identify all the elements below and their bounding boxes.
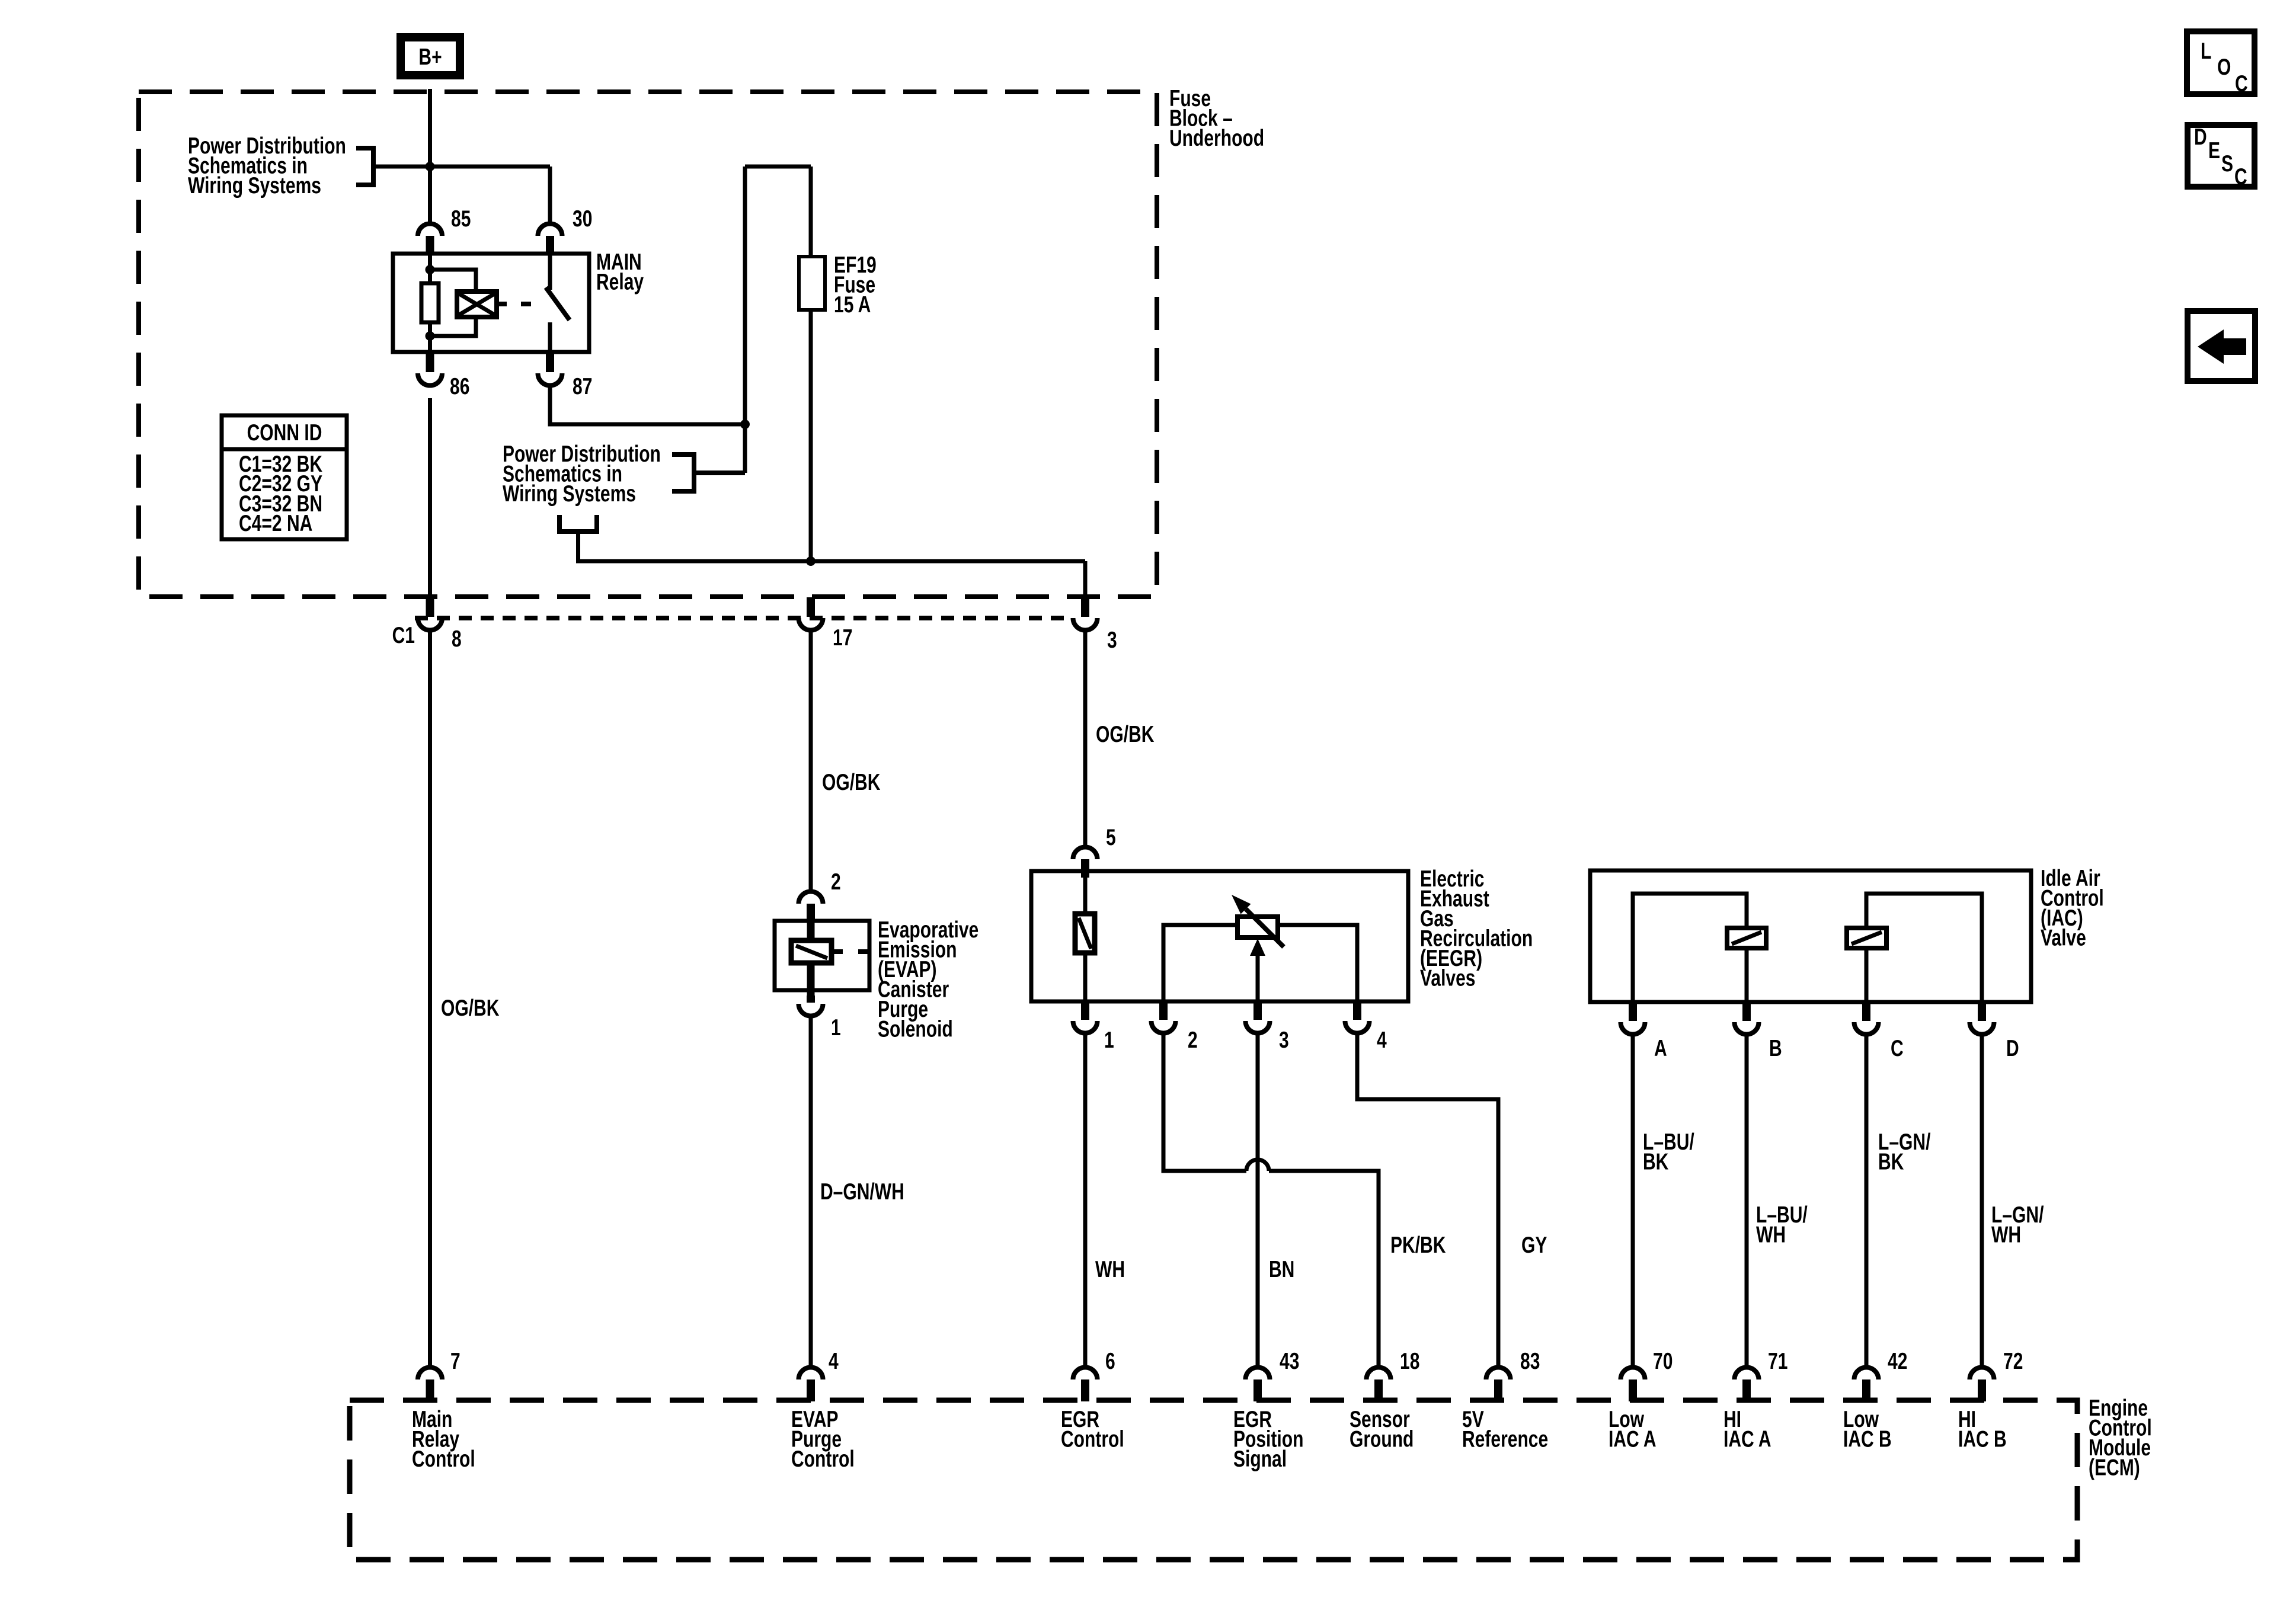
wire pot left to EEGR pin 2	[1163, 925, 1237, 1001]
CONN ID table	[222, 415, 347, 539]
label Sensor Ground	[1350, 1406, 1414, 1452]
wire D-GN/WH EVAP to ECM pin 4	[809, 1017, 813, 1366]
svg-text:WH: WH	[1095, 1256, 1125, 1282]
svg-text:WH: WH	[1991, 1222, 2021, 1248]
back arrow box	[2188, 311, 2255, 381]
svg-text:IAC A: IAC A	[1609, 1426, 1657, 1452]
svg-text:Wiring Systems: Wiring Systems	[188, 172, 321, 199]
svg-text:OG/BK: OG/BK	[441, 995, 499, 1021]
svg-text:Underhood: Underhood	[1169, 125, 1264, 151]
svg-text:70: 70	[1653, 1348, 1673, 1374]
IAC coil C/D	[1847, 928, 1886, 948]
wire label L-GN/WH	[1991, 1202, 2044, 1247]
wire riser top to fuse	[745, 165, 811, 169]
wire OG/BK pin 8 to ECM pin 7	[428, 632, 432, 1366]
svg-text:WH: WH	[1756, 1222, 1786, 1248]
label Low IAC A	[1609, 1406, 1657, 1452]
svg-text:Valves: Valves	[1420, 965, 1476, 991]
label Idle Air Control (IAC) Valve	[2041, 865, 2104, 950]
svg-text:IAC B: IAC B	[1958, 1426, 2007, 1452]
wire bracket to riser	[694, 470, 745, 475]
svg-text:(ECM): (ECM)	[2089, 1455, 2140, 1481]
label Low IAC B	[1843, 1406, 1892, 1452]
svg-text:C: C	[2235, 71, 2248, 97]
wire bracket to node and pin 30	[373, 165, 550, 169]
svg-text:D–GN/WH: D–GN/WH	[820, 1179, 904, 1205]
svg-text:D: D	[2194, 124, 2207, 150]
svg-text:BK: BK	[1878, 1149, 1904, 1175]
label MAIN Relay	[596, 249, 644, 295]
svg-text:7: 7	[450, 1348, 461, 1374]
Fuse Block - Underhood dashed box	[139, 92, 1157, 597]
svg-text:3: 3	[1279, 1027, 1289, 1053]
svg-text:O: O	[2217, 54, 2231, 80]
B+ battery terminal box	[401, 37, 460, 75]
svg-text:42: 42	[1888, 1348, 1907, 1374]
svg-text:E: E	[2208, 137, 2220, 164]
wire L-GN/WH IAC D to ECM pin 72	[1980, 1036, 1984, 1366]
ECM pin 83 connector	[1486, 1368, 1511, 1402]
EEGR pin 1 connector	[1073, 1001, 1097, 1033]
junction riser / pin 87 wire	[740, 420, 750, 429]
wire label L-BU/WH	[1756, 1202, 1808, 1247]
wire OG/BK pin 3 to EEGR pin 5	[1083, 632, 1088, 846]
svg-text:IAC A: IAC A	[1723, 1426, 1771, 1452]
svg-text:PK/BK: PK/BK	[1390, 1232, 1446, 1258]
wire coil bottom branch	[430, 317, 477, 336]
label HI IAC A	[1723, 1406, 1771, 1452]
potentiometer wiper arrow	[1250, 939, 1265, 1001]
svg-text:Control: Control	[791, 1446, 855, 1472]
C1 connector dashed line	[415, 616, 1071, 620]
label EGR Control	[1061, 1406, 1124, 1452]
wire IAC coil C stub	[1865, 928, 1869, 948]
wire 86 down to pin 8	[428, 398, 432, 598]
relay pin 30 connector	[538, 223, 562, 254]
svg-text:6: 6	[1105, 1348, 1115, 1374]
svg-text:BN: BN	[1269, 1256, 1294, 1282]
wire bracket to pin 3	[578, 532, 1086, 561]
relay pin 86 connector	[418, 354, 442, 386]
svg-text:L: L	[2201, 38, 2211, 64]
ECM pin 72 connector	[1970, 1368, 1994, 1402]
IAC pin D connector	[1970, 1003, 1994, 1035]
wire fuse vertical	[809, 167, 813, 561]
relay switch	[546, 254, 570, 352]
wire IAC coil C to pin C	[1865, 948, 1869, 1002]
connector C1 pin 3	[1073, 597, 1097, 630]
relay pin 87 connector	[538, 354, 562, 386]
wire GY EEGR pin 4 to ECM pin 83	[1357, 1035, 1498, 1366]
svg-text:18: 18	[1400, 1348, 1419, 1374]
svg-text:IAC B: IAC B	[1843, 1426, 1892, 1452]
DESC reference box	[2188, 124, 2255, 190]
EEGR position sensor potentiometer	[1232, 895, 1284, 947]
IAC pin B connector	[1735, 1003, 1759, 1035]
ECM pin 6 connector	[1073, 1368, 1097, 1402]
bracket for upper power distribution note	[356, 148, 373, 185]
wire PK/BK EEGR pin 2 to ECM pin 18	[1163, 1035, 1379, 1366]
wire EEGR pin 5 to solenoid	[1083, 878, 1088, 914]
bracket under mid power distribution note	[559, 515, 597, 532]
EEGR pin 5 connector	[1073, 847, 1097, 878]
svg-text:8: 8	[452, 626, 462, 652]
svg-text:71: 71	[1768, 1348, 1787, 1374]
junction fuse wire / pin 3 wire	[806, 556, 816, 566]
EVAP solenoid pin 1 connector	[799, 996, 823, 1016]
svg-text:Control: Control	[412, 1446, 475, 1472]
wire L-BU/WH IAC B to ECM pin 71	[1745, 1036, 1749, 1366]
svg-text:85: 85	[451, 206, 471, 232]
svg-text:S: S	[2221, 151, 2233, 177]
svg-text:2: 2	[1188, 1027, 1198, 1053]
EEGR pin 2 connector	[1152, 1001, 1176, 1033]
wire pin 87 to riser	[550, 385, 745, 424]
svg-text:4: 4	[829, 1348, 839, 1374]
wire label L-BU/BK	[1643, 1129, 1694, 1174]
EEGR pin 4 connector	[1345, 1001, 1370, 1033]
svg-text:Wiring Systems: Wiring Systems	[503, 481, 636, 507]
label 5V Reference	[1462, 1406, 1548, 1452]
ECM pin 7 connector	[418, 1368, 442, 1402]
svg-text:Reference: Reference	[1462, 1426, 1548, 1452]
svg-text:30: 30	[573, 206, 592, 232]
wire riser	[743, 167, 747, 473]
svg-text:3: 3	[1107, 627, 1117, 653]
svg-text:Control: Control	[1061, 1426, 1124, 1452]
wire pot right to EEGR pin 4	[1278, 925, 1357, 1001]
ECM pin 4 connector	[799, 1368, 823, 1402]
EVAP solenoid pin bar below coil	[807, 963, 815, 997]
svg-text:1: 1	[1104, 1027, 1114, 1053]
wire down to pin 3	[1083, 561, 1088, 598]
wire resistor to 86	[428, 322, 432, 352]
svg-text:BK: BK	[1643, 1149, 1668, 1175]
svg-text:Relay: Relay	[596, 269, 644, 295]
Idle Air Control (IAC) valve box	[1590, 870, 2031, 1002]
label HI IAC B	[1958, 1406, 2007, 1452]
label Main Relay Control	[412, 1406, 475, 1472]
svg-text:83: 83	[1520, 1348, 1540, 1374]
svg-text:Valve: Valve	[2041, 925, 2086, 951]
bracket for mid power distribution note	[672, 454, 694, 491]
wire label L-GN/BK	[1878, 1129, 1931, 1174]
EVAP solenoid actuating dashes	[832, 949, 869, 954]
ECM pin 71 connector	[1735, 1368, 1759, 1402]
IAC pin A connector	[1621, 1003, 1645, 1035]
MAIN Relay box	[393, 254, 589, 352]
label EVAP Purge Control	[791, 1406, 855, 1472]
svg-text:2: 2	[831, 869, 841, 895]
svg-text:C1: C1	[392, 622, 415, 648]
node junction B+ / relay 85 / relay 30	[426, 162, 435, 171]
wire coil top branch	[430, 270, 477, 292]
EVAP solenoid coil	[791, 940, 832, 963]
wire BN EEGR pin 3 to ECM pin 43	[1256, 1035, 1260, 1366]
EEGR valves box	[1031, 871, 1408, 1001]
label Engine Control Module (ECM)	[2089, 1395, 2152, 1480]
label Power Distribution Schematics in Wiring Systems (upper)	[188, 133, 346, 199]
svg-text:OG/BK: OG/BK	[1096, 721, 1154, 747]
label EF19 Fuse 15 A	[834, 252, 877, 318]
IAC coil A/B	[1727, 928, 1766, 948]
relay pin 85 connector	[418, 223, 442, 254]
label Evaporative Emission (EVAP) Canister Purge Solenoid	[878, 917, 978, 1042]
svg-text:D: D	[2006, 1035, 2019, 1061]
svg-text:17: 17	[833, 625, 852, 651]
EEGR solenoid coil	[1075, 914, 1095, 953]
EEGR pin 3 connector	[1246, 1001, 1270, 1033]
svg-text:A: A	[1654, 1035, 1667, 1061]
relay actuating dashed link	[497, 302, 542, 306]
wire EEGR solenoid to pin 1	[1083, 953, 1088, 1001]
svg-text:87: 87	[573, 373, 592, 399]
fuse EF19 15A	[799, 257, 825, 310]
connector C1 pin 8	[418, 597, 442, 630]
svg-text:C4=2 NA: C4=2 NA	[239, 510, 312, 536]
label Fuse Block Underhood	[1169, 85, 1264, 151]
svg-text:86: 86	[450, 373, 469, 399]
ECM pin 42 connector	[1854, 1368, 1879, 1402]
svg-text:15 A: 15 A	[834, 292, 871, 318]
relay coil (box with X)	[457, 292, 497, 317]
EVAP solenoid pin bar into coil	[807, 904, 815, 940]
EVAP solenoid pin 2 connector	[799, 892, 823, 923]
svg-text:72: 72	[2003, 1348, 2023, 1374]
svg-text:B+: B+	[418, 44, 442, 70]
svg-text:1: 1	[831, 1014, 841, 1041]
wire OG/BK pin 17 to EVAP	[809, 632, 813, 890]
svg-text:Solenoid: Solenoid	[878, 1016, 953, 1042]
wire IAC coil A loop	[1633, 894, 1747, 1002]
svg-text:GY: GY	[1521, 1232, 1547, 1258]
ECM pin 70 connector	[1621, 1368, 1645, 1402]
LOC reference box	[2187, 31, 2255, 97]
IAC pin C connector	[1854, 1003, 1879, 1035]
wire B+ down to pin 85	[428, 89, 432, 222]
svg-text:4: 4	[1377, 1027, 1387, 1053]
connector C1 pin 17	[799, 597, 823, 630]
junction resistor/coil bottom	[426, 331, 435, 341]
wire IAC coil B loop	[1866, 894, 1982, 1002]
svg-text:Signal: Signal	[1233, 1446, 1287, 1472]
wire down to pin 30	[548, 167, 552, 222]
wire 85 to resistor	[428, 254, 432, 283]
svg-text:5: 5	[1106, 824, 1116, 850]
svg-text:C: C	[2234, 164, 2247, 190]
ECM pin 43 connector	[1246, 1368, 1270, 1402]
Engine Control Module (ECM) dashed box	[350, 1400, 2077, 1560]
svg-text:B: B	[1769, 1035, 1782, 1061]
label Power Distribution Schematics in Wiring Systems (mid)	[503, 441, 661, 507]
EVAP canister purge solenoid box	[775, 921, 869, 990]
svg-text:Ground: Ground	[1350, 1426, 1414, 1452]
label Electric Exhaust Gas Recirculation (EEGR) Valves	[1420, 866, 1533, 991]
wire L-BU/BK IAC A to ECM pin 70	[1631, 1036, 1635, 1366]
wire L-GN/BK IAC C to ECM pin 42	[1865, 1036, 1869, 1366]
wire IAC coil A to pin B	[1745, 948, 1749, 1002]
relay resistor	[421, 283, 439, 322]
svg-text:OG/BK: OG/BK	[822, 769, 880, 795]
junction resistor/coil top	[426, 265, 435, 274]
label EGR Position Signal	[1233, 1406, 1303, 1472]
svg-text:43: 43	[1280, 1348, 1299, 1374]
ECM pin 18 connector	[1367, 1368, 1391, 1402]
wire WH EEGR pin 1 to ECM pin 6	[1083, 1035, 1088, 1366]
svg-text:CONN ID: CONN ID	[247, 420, 322, 446]
svg-text:C: C	[1891, 1035, 1904, 1061]
